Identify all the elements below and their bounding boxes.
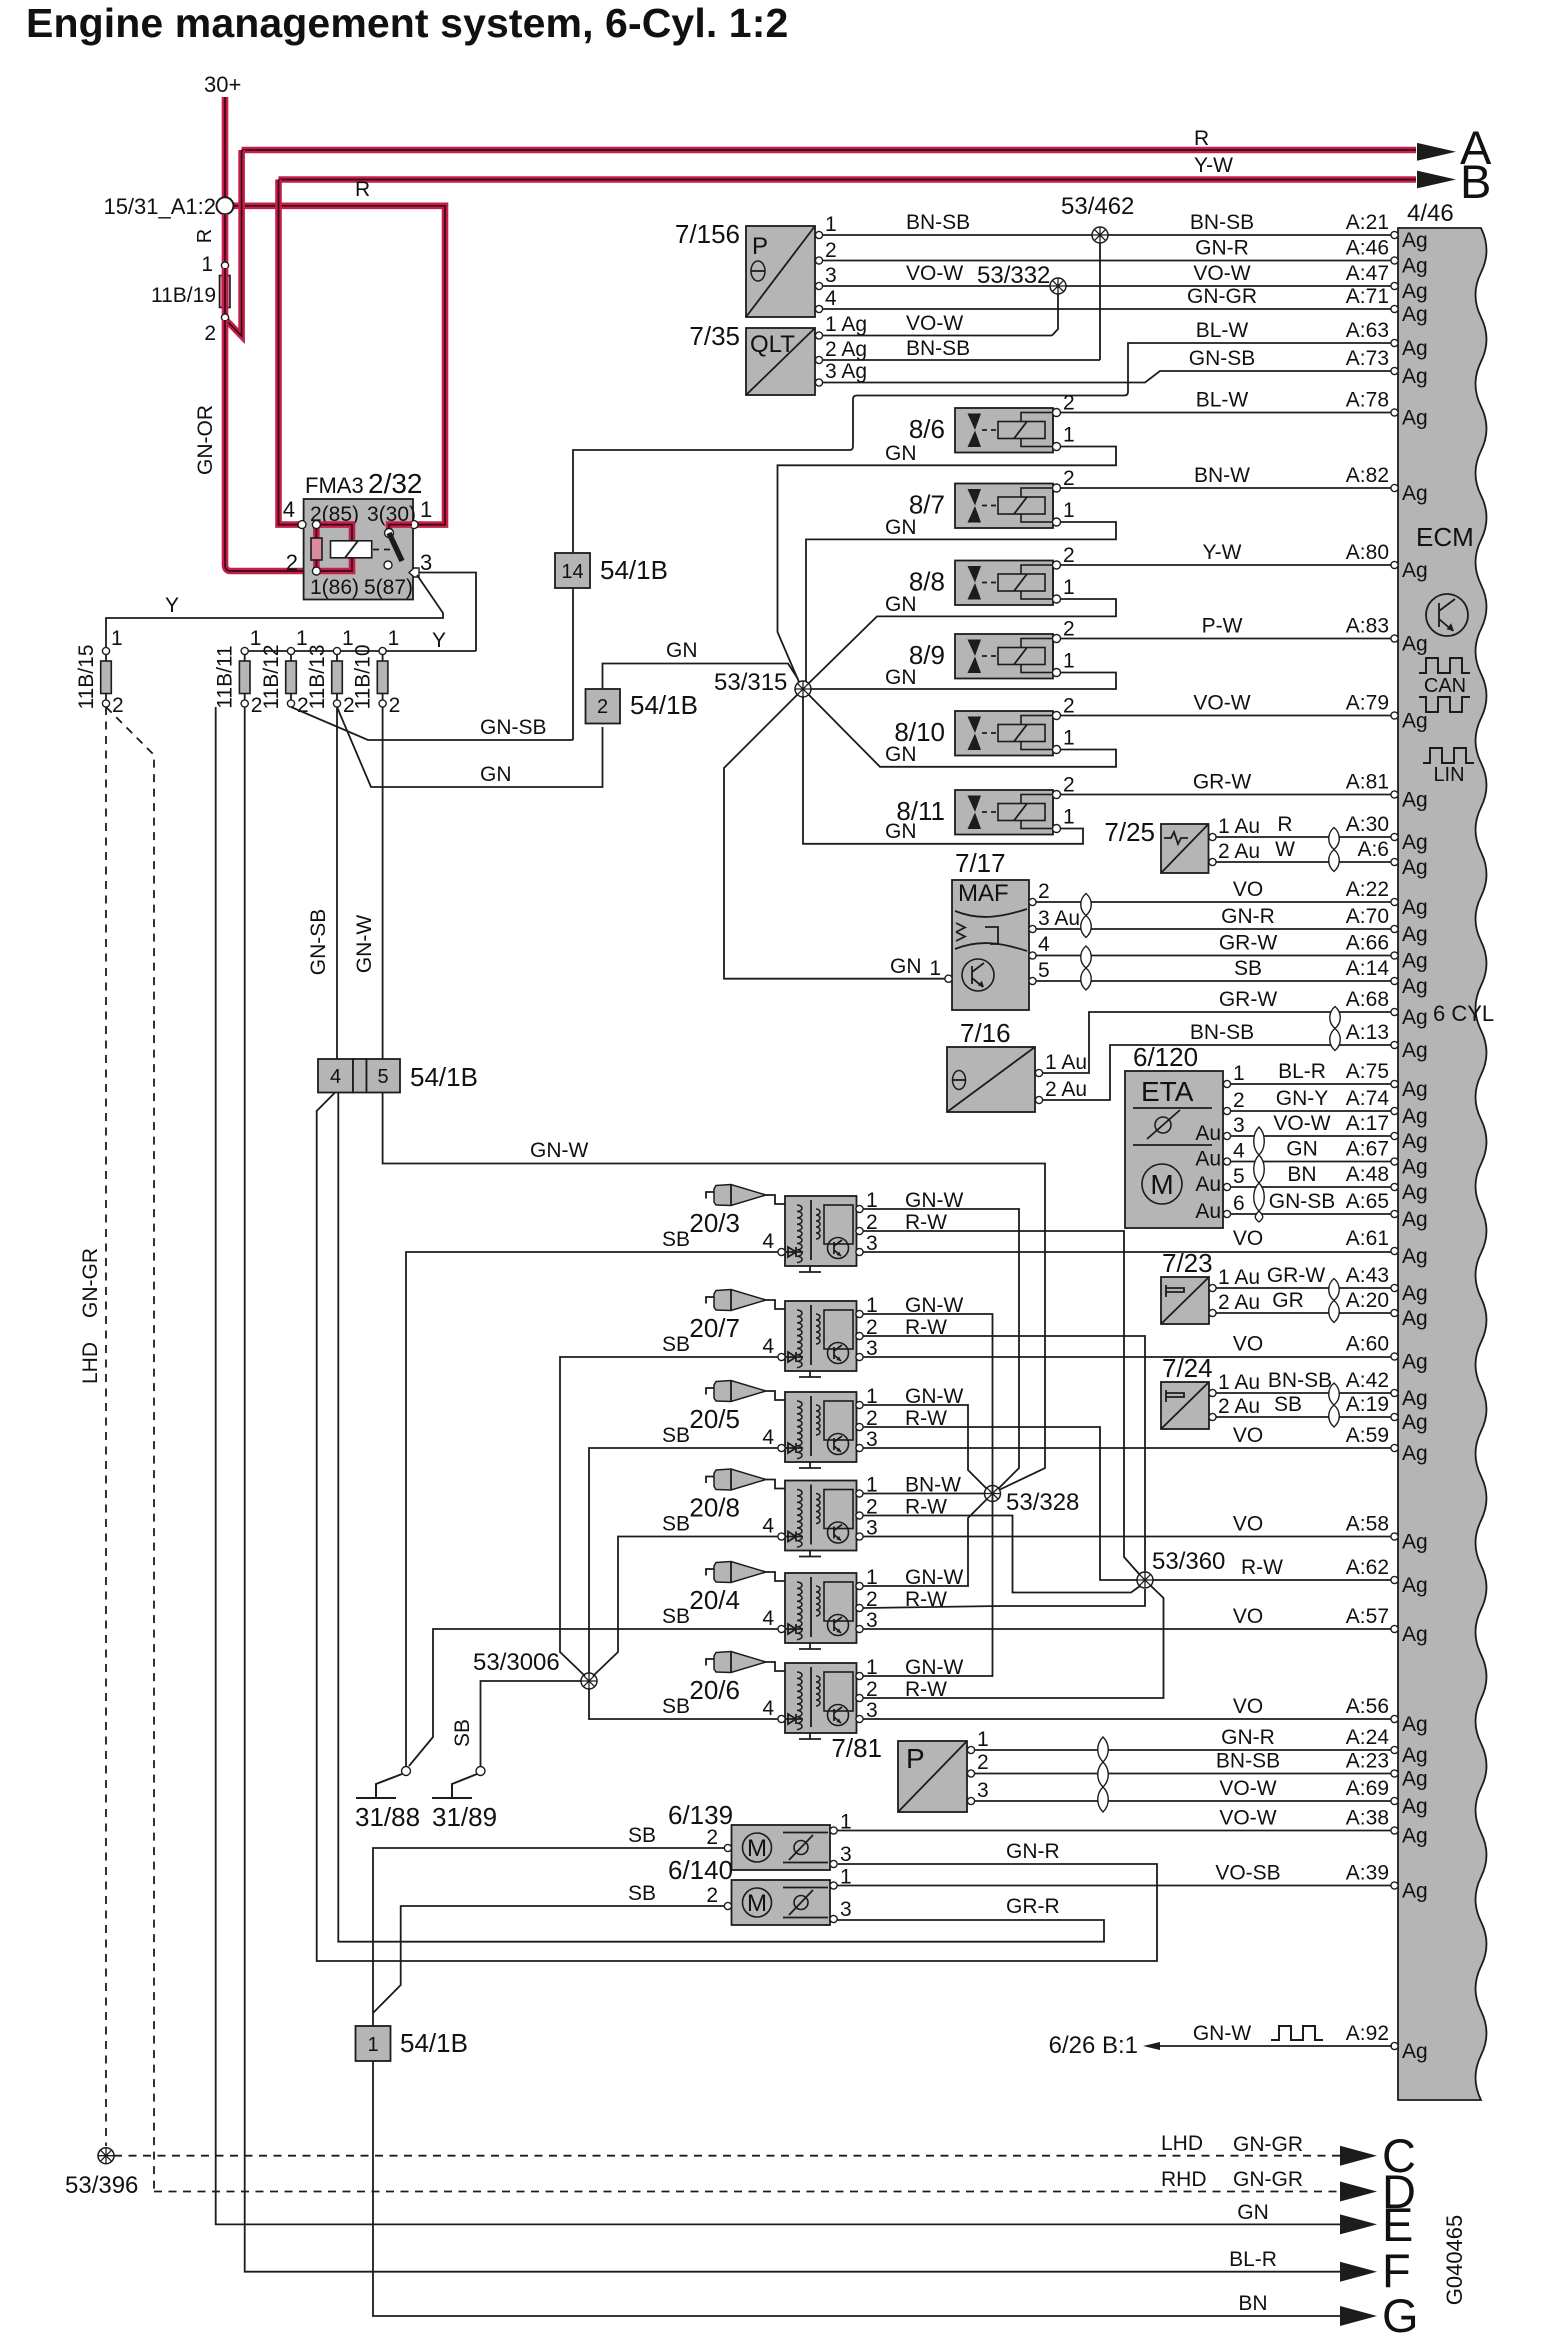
svg-text:Ag: Ag [1402,1130,1428,1153]
svg-text:1: 1 [1063,499,1075,522]
svg-text:Ag: Ag [1402,1387,1428,1410]
wire BN-W 20/8 pin1 to 53/328 [863,1493,984,1495]
pin 2 Au (7/24) [1209,1413,1216,1420]
svg-text:GN-SB: GN-SB [1269,1190,1336,1213]
svg-text:SB: SB [628,1882,656,1905]
svg-text:A:13: A:13 [1346,1021,1389,1044]
valve solenoid 8/10 body [955,711,1061,756]
svg-text:Ag: Ag [1402,896,1428,919]
svg-text:A:71: A:71 [1346,285,1389,308]
valve solenoid 8/7 body [955,484,1061,529]
svg-text:1: 1 [1063,424,1075,447]
svg-text:A:74: A:74 [1346,1087,1390,1110]
ECM pin A:20 [1346,1289,1428,1330]
svg-text:7/17: 7/17 [955,848,1006,878]
wire branch up from fuse 11B/19 pin 2 to net A [226,150,242,336]
svg-text:A:30: A:30 [1346,813,1389,836]
svg-text:R-W: R-W [1241,1556,1283,1579]
svg-text:BN-SB: BN-SB [1190,211,1254,234]
wire GR-W 7/17 pin4 to ECM A:66 [1036,955,1392,957]
wire dashed LHD GN-GR from 53/396 to arrow C [114,2155,1341,2157]
sensor 7/156 body [746,226,815,317]
sensor 7/25 body [1161,824,1209,873]
svg-text:SB: SB [451,1719,474,1747]
relay pin 1 terminal [410,521,418,529]
svg-text:A:23: A:23 [1346,1750,1389,1773]
wire GN to 8/11 [803,697,1083,844]
svg-text:VO: VO [1233,1333,1263,1356]
pin 1 Au (7/23) [1209,1284,1216,1291]
svg-text:GN-GR: GN-GR [1233,2168,1303,2191]
svg-text:A:83: A:83 [1346,615,1389,638]
svg-text:R: R [1277,813,1292,836]
svg-text:1: 1 [388,627,400,650]
svg-text:Ag: Ag [1402,1078,1428,1101]
connector 11B/11 [239,647,250,707]
ECM pin A:14 [1346,957,1428,998]
svg-text:GN-R: GN-R [1221,1726,1275,1749]
ECM pin A:56 [1346,1695,1428,1736]
svg-text:2: 2 [1233,1089,1245,1112]
svg-text:Au: Au [1195,1200,1221,1223]
svg-text:4: 4 [330,1066,341,1088]
injector 20/8 nozzle [706,1469,785,1490]
svg-text:GN-SB: GN-SB [1189,347,1256,370]
relay coil resistor element [311,538,322,560]
svg-text:GN: GN [666,639,698,662]
wire SB 6/140 pin2 to 54/1B pin 1 [373,1906,724,2013]
svg-text:LIN: LIN [1433,764,1464,786]
wire VO 20/5 pin3 to ECM [863,1447,1392,1449]
wire R-W 20/7 pin2 to 53/360 [863,1336,1145,1572]
svg-text:1: 1 [420,497,432,522]
relay switch pivot 3(30) [385,529,394,538]
svg-text:31/89: 31/89 [432,1802,497,1832]
wire VO-W 6/139 pin1 to ECM A:38 [837,1830,1392,1832]
wire GN-SB from 11B/12 pin 2 to 54/1B pin 14 [291,707,573,740]
wire VO-W 7/156 pin3 to ECM A:47 [823,285,1392,287]
wire 7/24 pin2 to ECM [1216,1416,1392,1418]
svg-text:GR-R: GR-R [1006,1895,1060,1918]
wire 7/23 pin1 to ECM [1216,1287,1392,1289]
svg-text:GN-GR: GN-GR [1187,285,1257,308]
svg-text:4: 4 [825,287,837,310]
wire GN-R 7/17 pin3 to ECM A:70 [1036,928,1392,930]
injector 20/5 nozzle [706,1381,785,1402]
svg-text:R: R [1194,127,1209,150]
svg-text:BN-SB: BN-SB [1268,1369,1332,1392]
svg-text:Y-W: Y-W [1194,154,1233,177]
junction 53/332 [1050,278,1066,294]
motor M circle (6/120) [1142,1164,1182,1204]
svg-text:VO: VO [1233,1605,1263,1628]
wire VO-W 7/81 pin3 to ECM A:69 [975,1800,1392,1802]
wire BN-SB 7/35 pin2 to 53/462 [823,359,1100,361]
svg-text:5(87): 5(87) [364,576,413,599]
injector 20/6 body [778,1663,863,1739]
svg-text:7/81: 7/81 [831,1733,882,1763]
pin 5 (6/120) [1223,1183,1230,1190]
connector 11B/12 [286,647,297,707]
svg-text:GN-W: GN-W [1193,2022,1251,2045]
svg-text:2: 2 [1063,544,1075,567]
svg-text:Y-W: Y-W [1203,541,1242,564]
svg-text:4: 4 [762,1426,774,1449]
svg-text:A:82: A:82 [1346,464,1389,487]
svg-text:BL-R: BL-R [1229,2248,1277,2271]
ECM pin A:24 [1346,1726,1428,1767]
connector 54/1B pin 14 [555,553,590,588]
wire 6/120 pin 6 to ECM [1231,1213,1392,1215]
svg-text:53/360: 53/360 [1152,1548,1225,1575]
wire GN-W 20/5 pin1 to 53/328 [863,1405,987,1489]
pulse symbol (A:92) [1271,2026,1323,2040]
arrow D [1340,2182,1377,2202]
ECM pin A:47 [1346,262,1428,303]
pin 1 (7/81) [967,1746,974,1753]
pin 1 (7/17) [945,975,952,982]
pin 2 (7/156) [815,257,822,264]
svg-text:20/5: 20/5 [689,1404,740,1434]
fuse 11B/19 pin 1 [221,262,228,269]
wire SB 20/7 pin4 to 53/3006 [560,1357,778,1676]
svg-text:A:65: A:65 [1346,1190,1389,1213]
valve solenoid 8/8 body [955,561,1061,606]
wire R 7/25 pin1 to ECM A:30 [1216,836,1392,838]
svg-text:A:79: A:79 [1346,692,1389,715]
svg-text:53/3006: 53/3006 [473,1649,560,1676]
svg-text:A:66: A:66 [1346,932,1389,955]
wire GN-R 7/81 pin1 to ECM A:24 [975,1749,1392,1751]
svg-text:4: 4 [762,1515,774,1538]
arrow G [1340,2306,1377,2326]
svg-text:Ag: Ag [1402,1181,1428,1204]
wire SB 20/8 pin4 to 53/3006 [593,1537,778,1677]
svg-text:ETA: ETA [1141,1076,1194,1107]
svg-text:Au: Au [1195,1122,1221,1145]
svg-text:W: W [1275,838,1295,861]
wire 8/6 pin 2 to ECM [1061,412,1393,414]
svg-text:1: 1 [929,957,941,980]
valve solenoid 8/11 body [955,790,1061,835]
wire VO 7/17 pin2 to ECM A:22 [1036,901,1392,903]
svg-text:A:19: A:19 [1346,1393,1389,1416]
wire 8/7 pin 2 to ECM [1061,487,1393,489]
svg-text:Ag: Ag [1402,255,1428,278]
svg-text:Ag: Ag [1402,1411,1428,1434]
connector 11B/15 [101,647,112,707]
svg-text:VO-W: VO-W [1219,1777,1276,1800]
arrow B [1417,171,1456,189]
transistor circle (7/17) [962,959,994,991]
svg-text:GN: GN [890,955,922,978]
injector 20/4 nozzle [706,1562,785,1583]
svg-text:54/1B: 54/1B [410,1062,478,1092]
injector 20/8 body [778,1481,863,1557]
injector 20/5 body [778,1392,863,1468]
svg-text:GN: GN [480,763,512,786]
wire GN to MAF 7/17 pin 1 [724,695,945,979]
svg-text:CAN: CAN [1424,675,1466,697]
svg-text:Ag: Ag [1402,559,1428,582]
pin 5 (7/17) [1029,977,1036,984]
svg-text:VO: VO [1233,878,1263,901]
svg-text:1: 1 [1063,727,1075,750]
ECM pin A:6 [1357,838,1427,879]
LIN pulse symbol [1423,748,1474,763]
svg-text:A:63: A:63 [1346,319,1389,342]
valve solenoid 8/6 body [955,408,1061,453]
wire BN from 54/1B pin 1 to arrow G [373,2061,1341,2316]
ECM pin A:30 [1346,813,1428,854]
svg-text:A:81: A:81 [1346,771,1389,794]
wire GN-R 7/156 pin2 to ECM A:46 [823,260,1392,262]
svg-text:11B/11: 11B/11 [214,645,237,708]
relay contact 5(87) [384,561,392,569]
injector 20/6 nozzle [706,1652,785,1673]
svg-text:2 Au: 2 Au [1218,1395,1260,1418]
svg-text:A:62: A:62 [1346,1556,1389,1579]
wire GN to 8/9 [811,673,1116,690]
wire Y from relay pin 3 down to 11B connector bus [419,573,476,652]
wire SB 7/17 pin5 to ECM A:14 [1036,980,1392,982]
svg-text:5: 5 [377,1066,388,1088]
injector 20/7 body [778,1301,863,1377]
svg-text:Au: Au [1195,1173,1221,1196]
knock sensor 7/23 body [1161,1277,1209,1324]
svg-text:M: M [747,1835,767,1862]
ECM pin A:63 [1346,319,1428,360]
svg-text:A:24: A:24 [1346,1726,1390,1749]
svg-text:A:48: A:48 [1346,1163,1389,1186]
wire SB 20/3 pin4 to switch 31/88 [406,1252,778,1768]
ECM pin A:92 [1346,2022,1428,2063]
pin 2 Au (7/16) [1035,1096,1042,1103]
arrow E [1340,2214,1377,2234]
wire 6/120 pin 2 to ECM [1231,1110,1392,1112]
svg-text:LHD: LHD [1161,2132,1203,2155]
svg-text:GN-W: GN-W [530,1139,588,1162]
svg-text:A:75: A:75 [1346,1060,1389,1083]
svg-text:BN: BN [1238,2292,1267,2315]
pin 3 (7/81) [967,1797,974,1804]
svg-text:GR-W: GR-W [1219,988,1277,1011]
svg-text:Ag: Ag [1402,1744,1428,1767]
transistor circle (ECM) [1426,594,1468,636]
wire 8/9 pin 2 to ECM [1061,638,1393,640]
svg-text:6 CYL: 6 CYL [1433,1001,1494,1026]
wire GN to 8/6 [778,447,1117,683]
svg-text:R: R [194,229,216,243]
svg-text:4: 4 [762,1697,774,1720]
ECM pin A:67 [1346,1138,1428,1179]
svg-text:R: R [355,178,370,201]
svg-text:Ag: Ag [1402,1307,1428,1330]
svg-text:SB: SB [662,1228,690,1251]
ECM pin A:17 [1346,1112,1428,1153]
svg-text:A:92: A:92 [1346,2022,1389,2045]
pin 1 Au (7/24) [1209,1389,1216,1396]
svg-text:6/139: 6/139 [668,1800,733,1830]
svg-text:Ag: Ag [1402,229,1428,252]
wire R from node to relay pin 1 (30) [233,206,445,525]
svg-text:Ag: Ag [1402,1006,1428,1029]
svg-text:1: 1 [1063,806,1075,829]
svg-text:Ag: Ag [1402,1442,1428,1465]
wire Y-W branch down from net B to relay pin 4 [279,180,317,525]
svg-text:A:58: A:58 [1346,1513,1389,1536]
relay pin 4 terminal [298,521,306,529]
wire GN-W 20/7 pin1 / 20/6 pin1 through 53/328 [863,1314,993,1676]
switch contact 31/88 [402,1767,411,1776]
motor 6/139 body [724,1825,837,1870]
twisted pair (7/25) [1329,828,1340,872]
svg-text:Ag: Ag [1402,365,1428,388]
svg-text:Ag: Ag [1402,1351,1428,1374]
ECM pin A:69 [1346,1777,1428,1818]
valve solenoid 8/9 body [955,634,1061,679]
svg-text:2 Au: 2 Au [1218,1291,1260,1314]
wire dashed RHD GN-GR to arrow D [154,2191,1341,2193]
svg-text:3 Ag: 3 Ag [825,360,867,383]
wire BN-SB 7/156 pin1 to ECM A:21 [823,234,1392,236]
svg-text:BN-SB: BN-SB [1190,1021,1254,1044]
pin 1 Ag (7/35) [815,332,822,339]
svg-text:2: 2 [1063,392,1075,415]
wire GR-R return below 54/1B pin 4 to 6/140 pin 3 [338,1093,1104,1942]
ECM pin A:48 [1346,1163,1428,1204]
ECM pin A:21 [1346,211,1428,252]
svg-text:GN-R: GN-R [1221,905,1275,928]
svg-text:Ag: Ag [1402,950,1428,973]
svg-text:20/6: 20/6 [689,1675,740,1705]
wire GN-W feed 54/1B pin5 to 53/328 [383,1092,1045,1490]
ECM pin A:19 [1346,1393,1428,1434]
sensor 7/81 body [898,1741,967,1812]
svg-text:7/16: 7/16 [960,1018,1011,1048]
svg-text:GR-W: GR-W [1219,932,1277,955]
wire R-W 20/6 pin2 to 53/360 [863,1585,1164,1698]
arrow C [1340,2146,1377,2166]
wire R-W 20/5 pin2 to 53/360 [863,1427,1137,1580]
svg-text:A:38: A:38 [1346,1807,1389,1830]
pressure symbol (7/16) [953,1071,966,1090]
wire GN from 54/1B pin 2 to junction 53/315 [603,664,799,690]
svg-text:Ag: Ag [1402,975,1428,998]
ECM pin A:22 [1346,878,1428,919]
svg-text:Ag: Ag [1402,1795,1428,1818]
svg-text:Y: Y [432,629,446,652]
ECM pin A:75 [1346,1060,1428,1101]
svg-text:4: 4 [762,1230,774,1253]
svg-text:BN-SB: BN-SB [906,337,970,360]
svg-text:GN: GN [1237,2201,1269,2224]
relay red link pin1 to switch pivot [389,525,412,531]
svg-text:8/8: 8/8 [909,567,945,597]
wire W 7/25 pin2 to ECM A:6 [1216,861,1392,863]
ECM pin A:62 [1346,1556,1428,1597]
wire GN from 11B/13 pin 2 to 54/1B pin 2 [337,707,603,787]
svg-text:3: 3 [825,264,837,287]
ECM pin A:83 [1346,615,1428,656]
wire R-W 53/360 to ECM A:62 [1153,1579,1392,1581]
svg-text:Y: Y [165,594,179,617]
pin 4 (6/120) [1223,1158,1230,1165]
wire GN-OR from 11B/19 pin 2 down to relay pin 2 (86) [225,320,317,571]
svg-text:7/25: 7/25 [1104,817,1155,847]
svg-text:SB: SB [662,1513,690,1536]
svg-text:Ag: Ag [1402,1208,1428,1231]
wire GN down to arrow E [216,707,1341,2224]
pin 1 (7/156) [815,231,822,238]
wire BL-W from 54/1B pin 14 up to ECM A:63 [573,343,1392,553]
pin 1 (6/120) [1223,1080,1230,1087]
relay switch arm [389,533,402,561]
wire VO 20/3 pin3 to ECM [863,1251,1392,1253]
twisted pair (7/17 pins 4-5) [1081,946,1092,990]
ECM pin A:80 [1346,541,1428,582]
ECM pin A:59 [1346,1424,1428,1465]
pin 1 Au (7/16) [1035,1069,1042,1076]
svg-text:Ag: Ag [1402,303,1428,326]
svg-text:Ag: Ag [1402,1245,1428,1268]
svg-text:6/26 B:1: 6/26 B:1 [1049,2032,1138,2059]
ECM pin A:23 [1346,1750,1428,1791]
switch contact 31/89 [476,1767,485,1776]
svg-text:GR-W: GR-W [1193,771,1251,794]
wire 6/120 pin 3 to ECM [1231,1135,1392,1137]
svg-text:1: 1 [1063,650,1075,673]
svg-text:VO-W: VO-W [906,312,963,335]
svg-text:7/35: 7/35 [689,321,740,351]
svg-text:2/32: 2/32 [368,468,423,499]
node 15/31_A1:2 [217,197,234,214]
svg-text:3: 3 [977,1779,989,1802]
pin 2 (7/81) [967,1770,974,1777]
svg-text:RHD: RHD [1161,2168,1207,2191]
svg-text:1 Au: 1 Au [1045,1051,1087,1074]
svg-text:6/120: 6/120 [1133,1042,1198,1072]
pin 3 Ag (7/35) [815,379,822,386]
ECM pin A:82 [1346,464,1428,505]
svg-text:SB: SB [662,1424,690,1447]
pin 3 (7/156) [815,282,822,289]
ECM pin A:71 [1346,285,1428,326]
injector 20/3 body [778,1196,863,1272]
relay coil red loop [316,525,352,571]
twisted bundle (6/120 pins 3-6) [1254,1127,1265,1222]
svg-text:GN: GN [885,442,917,465]
svg-text:1: 1 [1063,576,1075,599]
wire GN-R return below 54/1B pin 4 to 6/139 pin 3 [317,1093,1157,1962]
svg-text:2: 2 [597,696,608,718]
svg-text:P-W: P-W [1202,615,1243,638]
svg-text:A:14: A:14 [1346,957,1390,980]
wire VO 20/4 pin3 to ECM [863,1628,1392,1630]
svg-text:BL-W: BL-W [1196,389,1249,412]
connector 11B/13 [332,647,343,707]
airflow symbol (7/17) [955,909,1027,917]
svg-text:4: 4 [283,497,295,522]
wire GN-W 53/328 to 20/4 pin1 [863,1499,987,1586]
svg-text:2: 2 [1063,467,1075,490]
svg-text:20/7: 20/7 [689,1313,740,1343]
svg-text:M: M [1150,1169,1173,1200]
svg-text:2: 2 [825,239,837,262]
wire 6/120 pin 5 to ECM [1231,1186,1392,1188]
throttle symbol (6/120) [1155,1117,1171,1133]
svg-text:11B/13: 11B/13 [306,645,329,710]
